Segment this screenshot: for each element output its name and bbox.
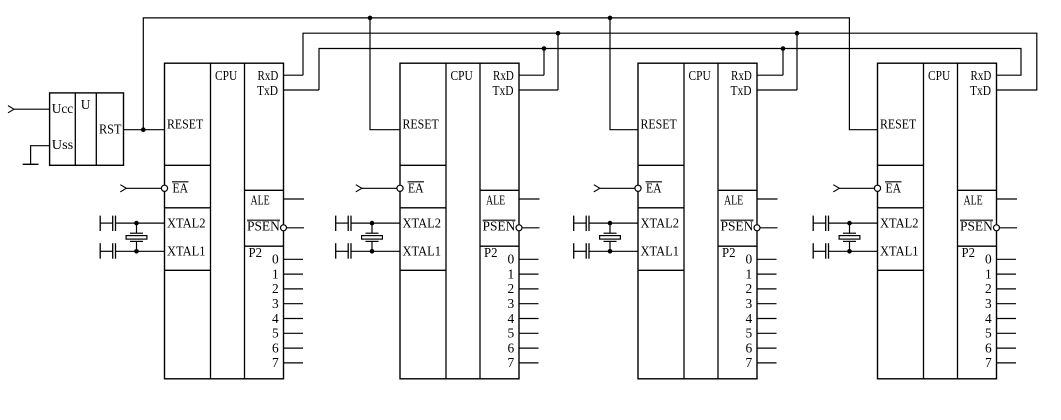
MCU U4 separator TxD/ALE [958, 189, 997, 191]
wire U2 PSEN stub [522, 227, 540, 229]
svg-text:TxD: TxD [731, 83, 752, 98]
MCU U3 separator XTAL bottom [638, 269, 684, 271]
MCU U2 EA input arrow [356, 185, 362, 192]
svg-text:5: 5 [985, 326, 992, 341]
wire U2 RxD stub [519, 74, 544, 76]
MCU U3 EA overline [646, 181, 663, 183]
crystal Y3 bottom lead [609, 241, 611, 251]
svg-text:RST: RST [99, 122, 122, 137]
MCU U4 divider right [957, 63, 959, 379]
svg-text:6: 6 [746, 340, 753, 355]
crystal Y3 top plate [604, 232, 617, 234]
crystal Y4 top lead [849, 223, 851, 233]
svg-text:XTAL1: XTAL1 [167, 243, 206, 258]
wire U2 P2 pin 4 [519, 318, 539, 320]
wire U3 P2 pin 0 [757, 258, 777, 260]
wire XTAL1 U2 [351, 250, 400, 252]
Ucc input arrow [8, 106, 14, 113]
wire U3 P2 pin 7 [757, 362, 777, 364]
svg-text:2: 2 [508, 281, 515, 296]
svg-text:2: 2 [272, 281, 279, 296]
crystal Y3 bottom plate [604, 240, 617, 242]
svg-text:ALE: ALE [724, 192, 743, 207]
capacitor C8 terminal bar [812, 243, 814, 259]
wire U3 EA input [600, 187, 635, 189]
MCU U2 separator XTAL bottom [400, 269, 446, 271]
wire U1 P2 pin 7 [284, 362, 304, 364]
svg-text:0: 0 [746, 252, 753, 267]
svg-text:CPU: CPU [928, 68, 950, 83]
wire U1 P2 pin 0 [284, 258, 304, 260]
capacitor C5 plates [585, 216, 587, 231]
wire U2 P2 pin 7 [519, 362, 539, 364]
svg-text:ALE: ALE [251, 192, 270, 207]
wire RxD bus [303, 33, 1037, 90]
wire U3 RxD riser [782, 49, 784, 76]
svg-text:TxD: TxD [493, 83, 514, 98]
crystal Y2 bottom lead [371, 241, 373, 251]
MCU U4 separator EA/XTAL [878, 207, 924, 209]
svg-text:1: 1 [508, 266, 515, 281]
svg-text:5: 5 [746, 326, 753, 341]
power supply U box [50, 93, 124, 165]
svg-text:2: 2 [746, 281, 753, 296]
crystal Y4 top plate [843, 232, 856, 234]
svg-text:RxD: RxD [971, 68, 992, 83]
svg-text:EA: EA [408, 181, 424, 196]
junction dot RxD bus U2 TxD [556, 31, 561, 36]
crystal Y2 top lead [371, 223, 373, 233]
MCU U4 PSEN overline [960, 219, 993, 221]
wire U3 P2 pin 2 [757, 288, 777, 290]
svg-text:6: 6 [272, 340, 279, 355]
capacitor C6 plates [585, 243, 587, 259]
wire U1 P2 pin 6 [284, 347, 304, 349]
MCU U3 EA pin circle [635, 185, 641, 191]
wire U4 PSEN stub [1000, 227, 1018, 229]
junction dot XTAL2 node U4 [847, 221, 852, 226]
wire C6 left lead [574, 250, 587, 252]
svg-text:U: U [81, 97, 91, 112]
MCU U1 EA input arrow [120, 185, 126, 192]
capacitor C4 plates [347, 243, 349, 259]
svg-text:4: 4 [508, 311, 515, 326]
capacitor C3 terminal bar [335, 216, 337, 231]
svg-text:0: 0 [508, 252, 515, 267]
capacitor C7 terminal bar [812, 216, 814, 231]
crystal Y2 body [362, 236, 383, 240]
wire U2 TxD riser [557, 33, 559, 90]
crystal Y2 top plate [366, 232, 379, 234]
svg-text:7: 7 [746, 355, 753, 370]
svg-text:Uss: Uss [52, 137, 73, 152]
power supply divider left [74, 93, 76, 165]
MCU U3 divider right [717, 63, 719, 379]
junction dot TxD bus U3 RxD [781, 46, 786, 51]
svg-text:P2: P2 [249, 245, 263, 260]
crystal Y1 bottom lead [136, 241, 138, 251]
junction dot RST node [141, 127, 146, 132]
svg-text:RESET: RESET [167, 117, 203, 132]
capacitor C6 terminal bar [573, 243, 575, 259]
capacitor C5 terminal bar [573, 216, 575, 231]
MCU U2 separator EA/XTAL [400, 207, 446, 209]
MCU U4 separator RESET/EA [878, 164, 924, 166]
MCU U1 separator EA/XTAL [165, 207, 211, 209]
svg-text:XTAL2: XTAL2 [880, 215, 919, 230]
MCU U2 separator RESET/EA [400, 164, 446, 166]
MCU U4 separator XTAL bottom [878, 269, 924, 271]
svg-text:Ucc: Ucc [52, 101, 73, 116]
wire U4 P2 pin 3 [997, 303, 1017, 305]
wire C4 left lead [336, 250, 349, 252]
wire U1 EA input [126, 187, 161, 189]
capacitor C1 plates [112, 216, 114, 231]
MCU U4 divider left [923, 63, 925, 379]
MCU U4 separator PSEN/P2 [958, 245, 997, 247]
MCU U4 EA pin circle [874, 185, 880, 191]
capacitor C3 plates [347, 216, 349, 231]
MCU U3 separator EA/XTAL [638, 207, 684, 209]
svg-text:EA: EA [646, 181, 662, 196]
junction dot reset bus to U3 [608, 16, 613, 21]
crystal Y1 top plate [130, 232, 143, 234]
wire U4 P2 pin 7 [997, 362, 1017, 364]
MCU U3 separator TxD/ALE [718, 189, 757, 191]
wire C7 left lead [813, 222, 826, 224]
svg-text:RESET: RESET [641, 117, 677, 132]
wire U2 EA input [362, 187, 397, 189]
junction dot RxD bus U3 TxD [795, 31, 800, 36]
MCU U4 PSEN pin circle [994, 225, 1000, 231]
MCU U3 separator RESET/EA [638, 164, 684, 166]
svg-text:P2: P2 [722, 245, 736, 260]
wire TxD bus [319, 49, 1021, 91]
wire RST output [124, 129, 165, 131]
MCU U1 separator PSEN/P2 [245, 245, 284, 247]
wire U3 ALE stub [757, 198, 778, 200]
wire U3 P2 pin 5 [757, 332, 777, 334]
MCU U1 divider left [210, 63, 212, 379]
svg-text:2: 2 [985, 281, 992, 296]
svg-text:RxD: RxD [258, 68, 279, 83]
MCU U4 EA input arrow [833, 185, 839, 192]
svg-text:3: 3 [508, 296, 515, 311]
junction dot XTAL2 node U2 [370, 221, 375, 226]
wire U1 TxD stub [284, 89, 320, 91]
svg-text:4: 4 [746, 311, 753, 326]
MCU U2 separator PSEN/P2 [480, 245, 519, 247]
svg-text:1: 1 [746, 266, 753, 281]
MCU U3 PSEN pin circle [754, 225, 760, 231]
svg-text:XTAL2: XTAL2 [641, 215, 680, 230]
svg-text:1: 1 [272, 266, 279, 281]
MCU U4 outer box [878, 63, 997, 379]
crystal Y2 bottom plate [366, 240, 379, 242]
wire U3 TxD riser [796, 33, 798, 90]
capacitor C1 terminal bar [99, 216, 101, 231]
crystal Y4 body [839, 236, 860, 240]
crystal Y4 bottom lead [849, 241, 851, 251]
wire XTAL2 U1 [116, 222, 165, 224]
svg-text:7: 7 [272, 355, 279, 370]
svg-text:EA: EA [886, 181, 902, 196]
wire U4 P2 pin 1 [997, 273, 1017, 275]
MCU U2 separator TxD/ALE [480, 189, 519, 191]
wire U3 RxD stub [757, 74, 783, 76]
wire U4 P2 pin 5 [997, 332, 1017, 334]
wire U2 P2 pin 1 [519, 273, 539, 275]
svg-text:TxD: TxD [257, 83, 278, 98]
wire U1 P2 pin 5 [284, 332, 304, 334]
wire XTAL2 U4 [829, 222, 878, 224]
svg-text:ALE: ALE [964, 192, 983, 207]
wire C8 left lead [813, 250, 826, 252]
wire U4 P2 pin 0 [997, 258, 1017, 260]
svg-text:3: 3 [985, 296, 992, 311]
wire C3 left lead [336, 222, 349, 224]
svg-text:XTAL1: XTAL1 [880, 243, 919, 258]
MCU U3 divider left [683, 63, 685, 379]
MCU U3 PSEN overline [721, 219, 754, 221]
MCU U2 EA overline [408, 181, 425, 183]
junction dot XTAL1 node U3 [608, 249, 613, 254]
MCU U2 divider right [479, 63, 481, 379]
wire reset bus [143, 18, 877, 130]
capacitor C2 plates [112, 243, 114, 259]
wire U4 ALE stub [997, 198, 1018, 200]
junction dot XTAL1 node U2 [370, 249, 375, 254]
wire U1 P2 pin 1 [284, 273, 304, 275]
ground [23, 163, 39, 165]
svg-text:RESET: RESET [403, 117, 439, 132]
svg-text:6: 6 [985, 340, 992, 355]
MCU U1 PSEN pin circle [281, 225, 287, 231]
wire U4 P2 pin 6 [997, 347, 1017, 349]
junction dot XTAL2 node U1 [134, 221, 139, 226]
wire U2 ALE stub [519, 198, 540, 200]
crystal Y1 top lead [136, 223, 138, 233]
capacitor C8 plates [825, 243, 827, 259]
svg-text:5: 5 [508, 326, 515, 341]
wire U2 P2 pin 6 [519, 347, 539, 349]
svg-text:XTAL1: XTAL1 [641, 243, 680, 258]
svg-text:RxD: RxD [493, 68, 514, 83]
capacitor C7 plates [825, 216, 827, 231]
junction dot XTAL2 node U3 [608, 221, 613, 226]
MCU U2 EA pin circle [397, 185, 403, 191]
wire XTAL2 U3 [589, 222, 638, 224]
junction dot XTAL1 node U1 [134, 249, 139, 254]
svg-text:TxD: TxD [970, 83, 991, 98]
svg-text:CPU: CPU [451, 68, 473, 83]
MCU U2 PSEN pin circle [516, 225, 522, 231]
svg-text:CPU: CPU [689, 68, 711, 83]
wire U4 EA input [839, 187, 874, 189]
junction dot reset bus to U2 [368, 16, 373, 21]
wire U1 ALE stub [284, 198, 305, 200]
wire U2 P2 pin 5 [519, 332, 539, 334]
junction dot XTAL1 node U4 [847, 249, 852, 254]
wire C2 left lead [100, 250, 113, 252]
svg-text:3: 3 [746, 296, 753, 311]
MCU U1 EA overline [172, 181, 189, 183]
wire U4 P2 pin 4 [997, 318, 1017, 320]
wire C5 left lead [574, 222, 587, 224]
MCU U1 outer box [165, 63, 284, 379]
svg-text:0: 0 [985, 252, 992, 267]
svg-text:3: 3 [272, 296, 279, 311]
MCU U3 separator PSEN/P2 [718, 245, 757, 247]
crystal Y4 bottom plate [843, 240, 856, 242]
wire U3 P2 pin 1 [757, 273, 777, 275]
svg-text:5: 5 [272, 326, 279, 341]
svg-text:P2: P2 [484, 245, 498, 260]
svg-text:ALE: ALE [486, 192, 505, 207]
svg-text:7: 7 [985, 355, 992, 370]
capacitor C4 terminal bar [335, 243, 337, 259]
wire U3 TxD stub [757, 89, 797, 91]
wire U3 P2 pin 3 [757, 303, 777, 305]
svg-text:CPU: CPU [215, 68, 237, 83]
svg-text:6: 6 [508, 340, 515, 355]
MCU U2 outer box [400, 63, 519, 379]
crystal Y3 top lead [609, 223, 611, 233]
svg-text:P2: P2 [962, 245, 976, 260]
power supply divider right [95, 93, 97, 165]
wire Uss to ground [31, 146, 50, 165]
crystal Y1 bottom plate [130, 240, 143, 242]
svg-text:1: 1 [985, 266, 992, 281]
MCU U2 divider left [445, 63, 447, 379]
MCU U3 outer box [638, 63, 757, 379]
wire U4 P2 pin 2 [997, 288, 1017, 290]
wire Ucc input [14, 108, 50, 110]
wire U1 RxD stub [284, 74, 304, 76]
wire U3 PSEN stub [760, 227, 778, 229]
wire U1 P2 pin 2 [284, 288, 304, 290]
svg-text:EA: EA [173, 181, 189, 196]
wire U1 P2 pin 4 [284, 318, 304, 320]
wire U3 P2 pin 4 [757, 318, 777, 320]
wire U2 P2 pin 0 [519, 258, 539, 260]
wire XTAL1 U4 [829, 250, 878, 252]
MCU U2 PSEN overline [483, 219, 516, 221]
wire U1 PSEN stub [287, 227, 305, 229]
svg-text:RxD: RxD [731, 68, 752, 83]
MCU U4 EA overline [885, 181, 902, 183]
wire U3 P2 pin 6 [757, 347, 777, 349]
wire U2 P2 pin 2 [519, 288, 539, 290]
wire U2 TxD stub [519, 89, 558, 91]
wire XTAL2 U2 [351, 222, 400, 224]
MCU U1 PSEN overline [247, 219, 280, 221]
wire XTAL1 U1 [116, 250, 165, 252]
wire C1 left lead [100, 222, 113, 224]
svg-text:7: 7 [508, 355, 515, 370]
wire U2 RxD riser [543, 49, 545, 76]
svg-text:XTAL2: XTAL2 [167, 215, 206, 230]
svg-text:RESET: RESET [880, 117, 916, 132]
wire U1 P2 pin 3 [284, 303, 304, 305]
MCU U1 separator RESET/EA [165, 164, 211, 166]
svg-text:4: 4 [985, 311, 992, 326]
MCU U3 EA input arrow [594, 185, 600, 192]
svg-text:XTAL2: XTAL2 [403, 215, 442, 230]
wire reset drop to U3 [610, 18, 638, 130]
svg-text:XTAL1: XTAL1 [403, 243, 442, 258]
junction dot TxD bus U2 RxD [542, 46, 547, 51]
wire U2 P2 pin 3 [519, 303, 539, 305]
svg-text:0: 0 [272, 252, 279, 267]
MCU U1 separator TxD/ALE [245, 189, 284, 191]
crystal Y1 body [126, 236, 147, 240]
capacitor C2 terminal bar [99, 243, 101, 259]
MCU U1 separator XTAL bottom [165, 269, 211, 271]
crystal Y3 body [600, 236, 621, 240]
MCU U1 EA pin circle [161, 185, 167, 191]
wire XTAL1 U3 [589, 250, 638, 252]
MCU U1 divider right [244, 63, 246, 379]
wire reset drop to U2 [370, 18, 400, 130]
svg-text:4: 4 [272, 311, 279, 326]
